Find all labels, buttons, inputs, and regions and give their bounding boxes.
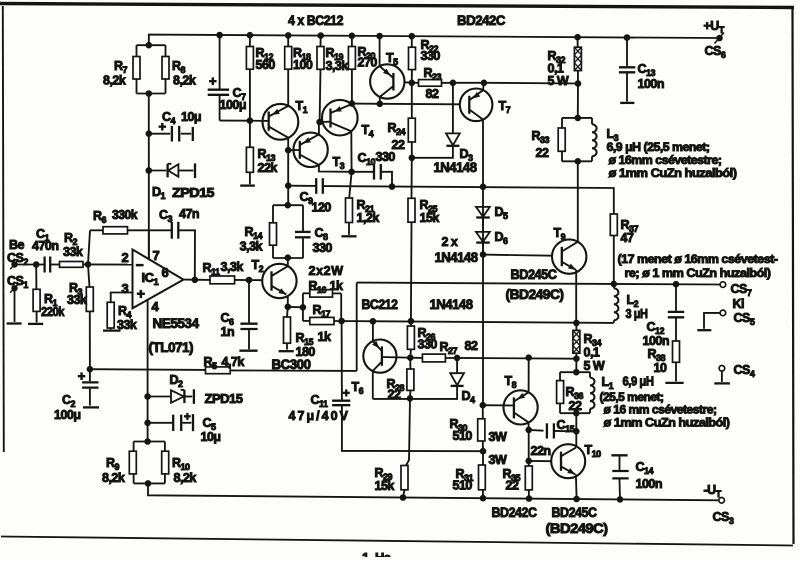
svg-text:1N4148: 1N4148 (435, 250, 479, 265)
svg-text:10μ: 10μ (201, 430, 221, 444)
svg-text:82: 82 (426, 87, 439, 101)
svg-text:(TL071): (TL071) (149, 340, 194, 355)
svg-text:NE5534: NE5534 (153, 316, 200, 331)
svg-text:3,3k: 3,3k (221, 260, 244, 274)
svg-text:ø 16 mm csévetestre;: ø 16 mm csévetestre; (604, 403, 717, 417)
svg-text:10μ: 10μ (181, 110, 201, 124)
svg-text:+: + (184, 412, 191, 424)
svg-text:100n: 100n (638, 77, 665, 91)
svg-text:1N4148: 1N4148 (434, 160, 478, 175)
svg-text:47μ/40V: 47μ/40V (289, 409, 349, 423)
svg-text:+: + (343, 386, 350, 400)
svg-text:10: 10 (654, 361, 667, 375)
svg-text:82: 82 (465, 339, 478, 353)
svg-text:6,9 μH (25,5 menet;: 6,9 μH (25,5 menet; (607, 140, 710, 154)
svg-text:(BD249C): (BD249C) (506, 287, 564, 302)
svg-text:1k: 1k (318, 330, 331, 344)
svg-text:ø 16mm csévetestre;: ø 16mm csévetestre; (609, 153, 722, 167)
svg-text:4 x BC212: 4 x BC212 (288, 12, 344, 28)
svg-text:15k: 15k (375, 479, 395, 493)
svg-text:BD242C: BD242C (457, 12, 505, 28)
svg-text:BD242C: BD242C (492, 505, 538, 520)
svg-text:100n: 100n (636, 477, 663, 491)
svg-text:Ki: Ki (733, 297, 745, 311)
svg-text:3W: 3W (489, 430, 507, 444)
svg-text:1n: 1n (221, 325, 235, 339)
svg-text:22: 22 (569, 399, 582, 413)
svg-text:33k: 33k (63, 245, 83, 259)
svg-text:15k: 15k (420, 211, 440, 225)
svg-text:+: + (137, 286, 145, 302)
svg-text:1k: 1k (330, 279, 343, 293)
svg-text:1. Ha: 1. Ha (362, 550, 392, 557)
svg-text:4,7k: 4,7k (222, 355, 245, 369)
svg-text:330: 330 (376, 150, 396, 164)
svg-text:470n: 470n (32, 239, 59, 253)
svg-text:22: 22 (388, 388, 401, 402)
svg-text:100n: 100n (643, 334, 670, 348)
svg-text:1,2k: 1,2k (357, 211, 380, 225)
svg-text:(17 menet ø 16mm csévetest-: (17 menet ø 16mm csévetest- (618, 252, 778, 266)
svg-text:100μ: 100μ (220, 98, 247, 112)
svg-text:0,1: 0,1 (584, 346, 600, 360)
svg-text:22: 22 (536, 146, 549, 160)
svg-text:330k: 330k (112, 208, 138, 222)
svg-text:3,3k: 3,3k (240, 240, 263, 254)
svg-text:120: 120 (312, 201, 332, 215)
svg-text:5 W: 5 W (584, 359, 605, 373)
svg-text:22n: 22n (531, 444, 551, 458)
svg-text:270: 270 (358, 56, 378, 70)
svg-text:6,9 μH: 6,9 μH (623, 375, 654, 389)
svg-text:560: 560 (256, 58, 276, 72)
svg-text:+: + (209, 74, 217, 89)
svg-text:47n: 47n (179, 207, 199, 221)
svg-text:100: 100 (293, 58, 313, 72)
svg-text:220k: 220k (41, 305, 64, 319)
svg-text:22: 22 (506, 479, 519, 493)
svg-text:BD245C: BD245C (511, 267, 558, 282)
svg-text:Be: Be (9, 238, 25, 252)
svg-text:re; ø 1 mm CuZn huzalból): re; ø 1 mm CuZn huzalból) (625, 266, 771, 280)
svg-text:ø 1mm CuZn huzalból): ø 1mm CuZn huzalból) (609, 166, 737, 180)
svg-text:3W: 3W (489, 453, 507, 467)
svg-text:6: 6 (162, 265, 169, 280)
svg-text:2 x: 2 x (442, 235, 458, 249)
svg-text:8,2k: 8,2k (102, 471, 125, 485)
svg-text:510: 510 (453, 429, 473, 443)
svg-text:BC300: BC300 (272, 357, 311, 372)
svg-text:100μ: 100μ (54, 408, 81, 422)
svg-text:BD245C: BD245C (552, 505, 598, 520)
svg-text:47: 47 (621, 231, 634, 245)
svg-text:7: 7 (153, 248, 160, 263)
svg-text:33k: 33k (117, 318, 137, 332)
svg-text:BC212: BC212 (362, 297, 398, 312)
svg-text:330: 330 (418, 338, 438, 352)
svg-text:3: 3 (122, 281, 129, 296)
svg-text:ZPD15: ZPD15 (172, 185, 214, 200)
svg-text:3 μH: 3 μH (626, 307, 648, 321)
svg-text:3,3k: 3,3k (326, 59, 349, 73)
svg-text:8,2k: 8,2k (174, 471, 197, 485)
svg-text:330: 330 (421, 49, 441, 63)
svg-text:8,2k: 8,2k (103, 74, 126, 88)
svg-text:(BD249C): (BD249C) (546, 521, 608, 536)
svg-text:2x2W: 2x2W (309, 264, 344, 278)
svg-text:510: 510 (453, 479, 473, 493)
svg-text:2: 2 (122, 250, 129, 265)
svg-text:33k: 33k (67, 293, 87, 307)
svg-text:1N4148: 1N4148 (430, 297, 474, 312)
svg-text:ø 1mm CuZn huzalból): ø 1mm CuZn huzalból) (604, 416, 730, 430)
svg-text:330: 330 (313, 241, 333, 255)
svg-text:8,2k: 8,2k (173, 74, 196, 88)
svg-text:ZPD15: ZPD15 (205, 391, 243, 406)
svg-text:22k: 22k (258, 161, 278, 175)
svg-text:5 W: 5 W (548, 74, 569, 88)
